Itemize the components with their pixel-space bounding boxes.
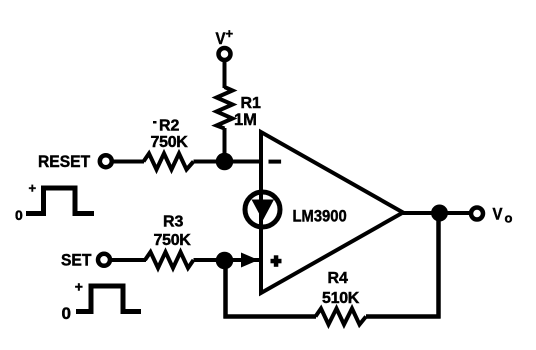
op-amp U1 triangle (261, 132, 403, 293)
current source symbol inside U1 (245, 192, 280, 227)
wire feedback bottom right (366, 314, 441, 319)
svg-text:LM3900: LM3900 (293, 208, 347, 226)
node V+ label (216, 26, 234, 48)
wire SET to R3 (111, 258, 147, 262)
minus input symbol (269, 160, 282, 164)
wire RESET to R2 (112, 160, 144, 164)
svg-text:V: V (216, 30, 226, 48)
svg-text:R2: R2 (159, 118, 180, 135)
node Vo label (493, 206, 513, 226)
svg-text:0: 0 (62, 304, 71, 323)
svg-text:510K: 510K (322, 290, 360, 307)
wire R2 to op-amp minus input (194, 160, 262, 164)
svg-text:SET: SET (61, 251, 91, 270)
wire op-amp output (403, 211, 471, 215)
junction plus node (216, 252, 234, 270)
svg-text:+: + (75, 279, 83, 295)
terminal SET (98, 254, 110, 266)
svg-text:750K: 750K (154, 232, 192, 249)
svg-text:R3: R3 (163, 214, 184, 231)
svg-text:+: + (29, 181, 37, 196)
wire R3 to op-amp plus input (194, 258, 262, 262)
resistor R4 (316, 270, 367, 325)
svg-text:RESET: RESET (38, 152, 90, 171)
resistor R1 (217, 87, 262, 129)
plus input symbol (271, 255, 282, 266)
waveform set pulse (62, 279, 142, 324)
resistor R3 (145, 214, 194, 269)
terminal Vo (471, 208, 483, 220)
terminal V+ (219, 48, 231, 60)
svg-text:R4: R4 (328, 270, 349, 287)
wire R1 to minus node (223, 128, 227, 162)
arrow into plus input (241, 253, 259, 268)
resistor R2 (144, 118, 194, 170)
svg-text:1M: 1M (234, 111, 257, 129)
junction minus node (216, 153, 234, 171)
wire V+ to R1 (223, 62, 227, 89)
wire feedback bottom left (224, 314, 317, 319)
terminal RESET (100, 155, 112, 167)
svg-text:750K: 750K (151, 134, 189, 151)
svg-text:V: V (493, 206, 503, 224)
svg-text:o: o (505, 211, 513, 226)
waveform reset pulse (15, 181, 94, 224)
junction output node (431, 205, 448, 222)
svg-text:R1: R1 (241, 95, 262, 112)
wire feedback left vertical (223, 260, 228, 319)
svg-text:0: 0 (15, 207, 23, 223)
wire feedback right vertical (436, 213, 441, 319)
svg-text:+: + (226, 26, 234, 41)
